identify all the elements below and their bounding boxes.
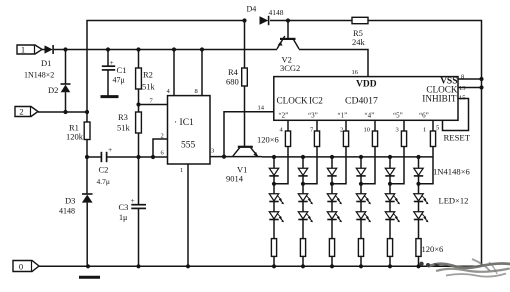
wire R5 to right edge, down right side to ground bus	[368, 21, 482, 267]
wire riser column 2 down and left to LED node	[303, 147, 317, 184]
wire clock riser to IC2 pin 14	[224, 112, 274, 157]
svg-text:8: 8	[195, 88, 198, 95]
resistor 120 ohm (top) column 5	[401, 131, 406, 147]
resistor 120 ohm (bottom) column 5	[387, 239, 392, 257]
svg-text:120×6: 120×6	[422, 244, 444, 254]
wire top bus from terminal-2 riser corner to D4	[87, 21, 245, 113]
svg-text:· IC1: · IC1	[174, 118, 194, 128]
wire bottom resistor to ground bus column 1	[273, 256, 275, 266]
svg-text:3: 3	[211, 148, 214, 155]
node junction top bus / R4 branch	[242, 18, 246, 22]
svg-text:51k: 51k	[142, 82, 156, 92]
wire diode bus stub column 1	[273, 157, 275, 168]
wire LED1-LED2 column 6	[418, 184, 420, 194]
op-amp IC1 555 timer box	[168, 96, 211, 164]
diode 1N4148 column 5	[385, 168, 394, 175]
wire LED2 to bottom resistor column 3	[331, 220, 333, 239]
svg-text:RESET: RESET	[444, 133, 471, 143]
svg-text:LED×12: LED×12	[439, 196, 469, 206]
LED 2 column 2	[298, 212, 307, 219]
wire IC2 output stub pin column 5	[403, 120, 405, 131]
svg-text:“1”: “1”	[338, 112, 348, 120]
wire top bus D4 cathode to V2 base node	[270, 20, 288, 22]
wire R3 to timing node	[138, 133, 140, 157]
svg-text:1N4148×6: 1N4148×6	[433, 167, 471, 177]
wire C1 to ground bar	[107, 70, 109, 96]
node ground bus column 4	[359, 264, 363, 268]
diode D4	[260, 16, 269, 24]
node diode bus column 5	[388, 155, 392, 159]
node diode bus column 3	[330, 155, 334, 159]
node rail/IC1 pin8	[200, 47, 204, 51]
wire bottom resistor to ground bus column 5	[389, 256, 391, 266]
wire LED diode anode bus	[262, 156, 433, 158]
svg-text:51k: 51k	[117, 123, 131, 133]
LED 1 column 1	[269, 194, 278, 201]
svg-text:0: 0	[19, 261, 23, 271]
LED 1 column 2	[298, 194, 307, 201]
svg-text:3: 3	[396, 127, 399, 134]
svg-text:R4: R4	[228, 67, 239, 77]
node diode/LED junction column 5	[388, 182, 392, 186]
wire riser column 4 down and left to LED node	[361, 147, 375, 184]
svg-text:“6”: “6”	[419, 112, 429, 120]
wire diode bus stub column 4	[360, 157, 362, 168]
wire IC2 output stub pin column 6	[432, 120, 434, 131]
node pin13/right vertical	[479, 85, 483, 89]
wire R4 to V1 base	[244, 86, 246, 147]
svg-text:D1: D1	[41, 58, 51, 68]
svg-text:R3: R3	[118, 112, 128, 122]
wire riser column 3 down and left to LED node	[332, 147, 346, 184]
wire LED1-LED2 column 3	[331, 184, 333, 194]
LED 1 column 6	[414, 194, 423, 201]
ground (C1)	[101, 95, 119, 98]
svg-text:1N148×2: 1N148×2	[24, 71, 54, 80]
wire bottom resistor to ground bus column 3	[331, 256, 333, 266]
terminal 0	[13, 261, 39, 272]
diode D2	[61, 83, 71, 85]
wire +V rail from D1 to V2 emitter	[54, 49, 277, 51]
wire bottom resistor to ground bus column 4	[360, 256, 362, 266]
transistor V1 9014	[238, 146, 253, 148]
wire diode bus stub column 6	[418, 157, 420, 168]
svg-text:1: 1	[21, 45, 25, 55]
node terminal2/riser/R1	[85, 110, 89, 114]
wire R1 to D3 node	[86, 140, 88, 158]
resistor 120 ohm (bottom) column 2	[300, 239, 305, 257]
node R1/C2/D3	[85, 155, 89, 159]
node ground bus column 3	[330, 264, 334, 268]
svg-text:13: 13	[459, 85, 466, 92]
svg-text:“4”: “4”	[365, 112, 375, 120]
wire IC1 pin8 to rail	[201, 50, 203, 96]
LED 2 column 6	[414, 212, 423, 219]
wire diode bus stub column 2	[302, 157, 304, 168]
svg-text:VDD: VDD	[356, 80, 377, 90]
node pin8/right vertical	[479, 77, 483, 81]
wire ground bus	[39, 265, 482, 267]
svg-text:680: 680	[226, 77, 239, 87]
svg-text:R2: R2	[143, 70, 153, 80]
node rail/C1	[106, 47, 110, 51]
node rail/IC1 pin4	[172, 47, 176, 51]
svg-text:120×6: 120×6	[257, 135, 279, 145]
node diode/LED junction column 6	[416, 182, 420, 186]
svg-text:CD4017: CD4017	[345, 96, 378, 107]
diode D1	[45, 45, 53, 53]
capacitor C1 47u (polarized)	[102, 65, 115, 67]
svg-text:24k: 24k	[352, 37, 366, 47]
ground symbol	[79, 276, 100, 279]
wire timing node down to C3	[138, 157, 140, 204]
node rail/D2	[63, 47, 67, 51]
diode D3	[82, 193, 93, 195]
svg-text:1μ: 1μ	[119, 213, 127, 222]
node pin1/ground bus	[186, 264, 190, 268]
diode 1N4148 column 3	[327, 168, 336, 175]
node ground bus column 5	[388, 264, 392, 268]
wire IC1 pin4 to rail	[173, 50, 175, 96]
wire pin13 to right vertical	[458, 87, 482, 89]
wire LED1-LED2 column 5	[389, 184, 391, 194]
diode 1N4148 column 2	[298, 168, 307, 175]
svg-text:IC2: IC2	[309, 96, 323, 106]
wire riser column 5 down and left to LED node	[390, 147, 404, 184]
node diode/LED junction column 2	[301, 182, 305, 186]
resistor 120 ohm (bottom) column 1	[271, 239, 276, 257]
svg-text:+: +	[131, 196, 135, 205]
LED 2 column 4	[356, 212, 365, 219]
svg-text:CLOCK: CLOCK	[277, 96, 309, 106]
wire rail down to R2	[138, 50, 140, 69]
svg-text:C3: C3	[119, 202, 129, 212]
node terminal0/ground	[86, 264, 90, 268]
wire pin7 node to IC1 pin 7	[139, 104, 168, 106]
wire bottom resistor to ground bus column 6	[418, 256, 420, 266]
wire LED2 to bottom resistor column 1	[273, 220, 275, 239]
terminal 1	[17, 45, 42, 54]
wire V2 base node to R5	[288, 20, 352, 22]
svg-text:D3: D3	[65, 196, 75, 206]
wire pin6 into IC1	[153, 156, 168, 158]
svg-text:47μ: 47μ	[113, 76, 125, 85]
resistor 120 ohm (top) column 6	[430, 131, 435, 147]
wire rail down to D2 cathode	[65, 50, 67, 85]
capacitor C3 1u (polarized)	[131, 204, 146, 206]
resistor R2 51k	[136, 68, 142, 89]
wire LED2 to bottom resistor column 4	[360, 220, 362, 239]
svg-text:“2”: “2”	[279, 112, 289, 120]
resistor 120 ohm (top) column 2	[314, 131, 319, 147]
wire terminal 2 to risers	[38, 111, 87, 113]
svg-text:2: 2	[19, 107, 23, 117]
wire IC2 output stub pin column 4	[374, 120, 376, 131]
resistor R4 680	[242, 68, 248, 86]
wire pin15 RESET to pin5	[443, 99, 469, 131]
LED 2 column 1	[269, 212, 278, 219]
svg-text:“5”: “5”	[393, 112, 403, 120]
node R2/R3/pin7	[136, 102, 140, 106]
node diode/LED junction column 1	[272, 182, 276, 186]
svg-text:4.7μ: 4.7μ	[97, 177, 110, 186]
LED 2 column 3	[327, 212, 336, 219]
svg-text:14: 14	[258, 105, 265, 112]
node diode bus column 1	[272, 155, 276, 159]
node ground bus column 2	[301, 264, 305, 268]
LED 1 column 3	[327, 194, 336, 201]
wire bottom resistor to ground bus column 2	[302, 256, 304, 266]
svg-text:120k: 120k	[66, 132, 84, 142]
resistor 120 ohm (bottom) column 6	[416, 239, 421, 257]
diode 1N4148 column 6	[414, 168, 423, 175]
resistor 120 ohm (bottom) column 4	[358, 239, 363, 257]
node diode/LED junction column 3	[330, 182, 334, 186]
terminal 2	[15, 107, 38, 117]
wire riser column 1 down and left to LED node	[274, 147, 288, 184]
svg-text:D2: D2	[48, 85, 58, 95]
resistor 120 ohm (top) column 1	[285, 131, 290, 147]
IC2 CD4017 box	[274, 77, 458, 121]
wire diode bus stub column 5	[389, 157, 391, 168]
svg-text:4148: 4148	[59, 207, 75, 216]
svg-text:3CG2: 3CG2	[280, 63, 300, 73]
wire V2 base from D4 node	[287, 21, 289, 39]
node diode/LED junction column 4	[359, 182, 363, 186]
wire C2 to timing node and pin6	[107, 156, 153, 158]
wire diode bus stub column 3	[331, 157, 333, 168]
svg-text:“3”: “3”	[308, 112, 318, 120]
node diode bus column 6	[416, 155, 420, 159]
svg-text:9014: 9014	[226, 174, 244, 184]
transistor V2 3CG2	[280, 38, 296, 40]
wire D3 node to C2	[87, 156, 101, 158]
resistor 120 ohm (top) column 4	[372, 131, 377, 147]
svg-text:INHIBIT: INHIBIT	[422, 94, 457, 104]
svg-text:1: 1	[180, 167, 183, 174]
wire D3 anode to ground bus	[86, 203, 88, 267]
resistor R3 51k	[136, 112, 142, 133]
node junction D4 / V2 base / R5	[286, 18, 290, 22]
wire R2 to pin7 node	[138, 89, 140, 112]
LED 1 column 5	[385, 194, 394, 201]
wire LED2 to bottom resistor column 2	[302, 220, 304, 239]
wire LED1-LED2 column 2	[302, 184, 304, 194]
svg-text:555: 555	[181, 141, 196, 151]
svg-text:4148: 4148	[269, 8, 284, 17]
wire IC2 output stub pin column 2	[316, 120, 318, 131]
svg-text:D4: D4	[247, 5, 257, 14]
wire D3 cathode up to R1/C2 node	[86, 157, 88, 194]
capacitor C2 4.7u (polarized)	[100, 152, 102, 162]
node diode bus column 4	[359, 155, 363, 159]
diode 1N4148 column 1	[269, 168, 278, 175]
svg-text:C1: C1	[117, 65, 127, 75]
node ground bus column 6	[416, 264, 420, 268]
wire terminal2 node down to R1	[86, 112, 88, 122]
wire terminal 1 to D1	[42, 49, 45, 51]
wire LED2 to bottom resistor column 5	[389, 220, 391, 239]
wire pin8 VSS to right vertical	[458, 78, 482, 80]
resistor R5 24k	[352, 17, 368, 23]
wire D2 anode down to terminal 2 wire	[65, 92, 67, 112]
node C3/ground bus	[136, 264, 140, 268]
resistor 120 ohm (top) column 3	[343, 131, 348, 147]
wire pin3 output to LED diode bus	[210, 156, 262, 158]
svg-text:2: 2	[161, 133, 164, 140]
wire V2 collector to IC2 VDD pin 16	[299, 50, 368, 77]
resistor 120 ohm (bottom) column 3	[329, 239, 334, 257]
wire LED1-LED2 column 1	[273, 184, 275, 194]
node rail/R2	[136, 47, 140, 51]
resistor R1 120k	[84, 122, 90, 140]
svg-text:16: 16	[352, 69, 359, 76]
wire riser column 6 down and left to LED node	[419, 147, 434, 184]
node timing node (C2/R3/pin2/pin6)	[136, 155, 140, 159]
wire IC1 pin1 to ground bus	[187, 164, 189, 266]
wire C3 to ground bus	[138, 208, 140, 266]
wire IC2 output stub pin column 1	[287, 120, 289, 131]
svg-text:C2: C2	[99, 165, 109, 175]
diode 1N4148 column 4	[356, 168, 365, 175]
LED 1 column 4	[356, 194, 365, 201]
node diode bus column 2	[301, 155, 305, 159]
wire pin2 jog	[153, 139, 168, 157]
svg-text:1: 1	[423, 127, 426, 134]
svg-text:+: +	[110, 58, 114, 67]
node ground bus column 1	[272, 264, 276, 268]
scanner watermark smudge	[428, 259, 510, 277]
wire rail down to C1	[107, 50, 109, 66]
wire LED2 to bottom resistor column 6	[418, 220, 420, 239]
LED 2 column 5	[385, 212, 394, 219]
node terminal2/D2	[63, 110, 67, 114]
wire R4 from top bus	[244, 21, 246, 69]
wire IC2 output stub pin column 3	[345, 120, 347, 131]
wire LED1-LED2 column 4	[360, 184, 362, 194]
node pin2/pin6 tie	[151, 155, 155, 159]
svg-text:10: 10	[364, 127, 371, 134]
svg-text:+: +	[108, 145, 112, 154]
svg-text:5: 5	[436, 125, 439, 132]
node pin3/clock riser	[222, 155, 226, 159]
